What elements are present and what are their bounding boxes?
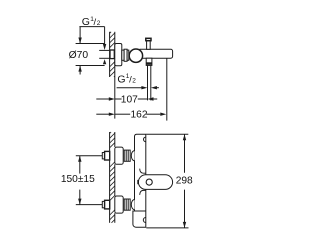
svg-text:162: 162 [131,109,148,120]
svg-text:107: 107 [121,94,138,105]
svg-text:150±15: 150±15 [61,174,95,185]
svg-text:G: G [117,73,125,85]
svg-text:Ø70: Ø70 [69,50,89,61]
svg-text:298: 298 [176,175,193,186]
svg-text:2: 2 [132,77,136,84]
